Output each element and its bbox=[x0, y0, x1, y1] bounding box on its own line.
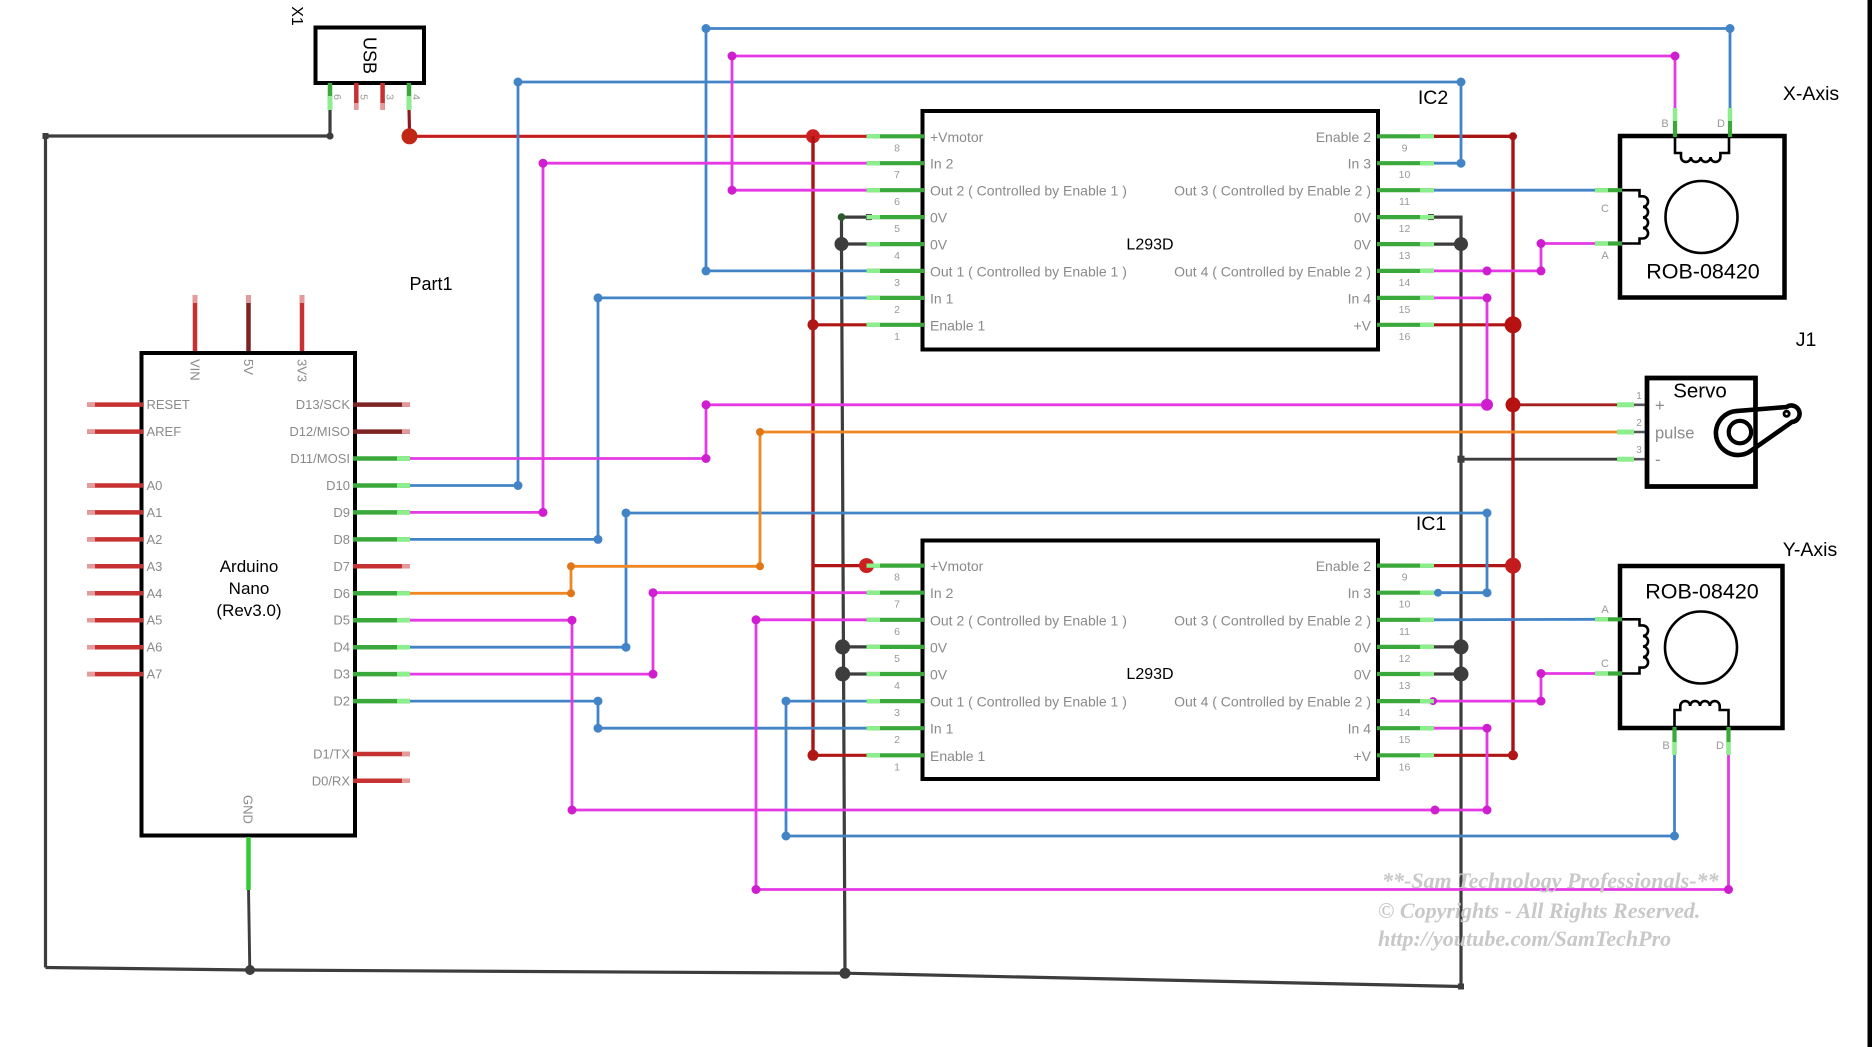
svg-text:A2: A2 bbox=[147, 532, 163, 547]
svg-text:A6: A6 bbox=[147, 640, 163, 655]
svg-text:8: 8 bbox=[894, 572, 900, 584]
stepper motor X left coil bbox=[1622, 190, 1648, 243]
pin 3 of servo J1 bbox=[1617, 458, 1648, 461]
pin 13 0V of IC1 bbox=[1377, 672, 1434, 676]
junction right 0V pin13 bbox=[1454, 237, 1468, 251]
wire red bus to IC1 Enable1 bbox=[813, 754, 869, 757]
svg-text:D13/SCK: D13/SCK bbox=[296, 397, 351, 412]
svg-text:C: C bbox=[1601, 203, 1609, 215]
pin 7 In 2 of IC2 bbox=[867, 161, 925, 165]
pin D4 of Arduino bbox=[353, 645, 410, 650]
svg-text:A1: A1 bbox=[147, 505, 163, 520]
pin 3 Out 1 ( Controlled by Enable 1 ) of IC1 bbox=[867, 699, 925, 703]
stepper motor Y rotor circle bbox=[1665, 612, 1737, 684]
wire IC2 0V pins 5-4 to gray bus bbox=[842, 217, 870, 244]
svg-text:D6: D6 bbox=[333, 586, 350, 601]
svg-text:X-Axis: X-Axis bbox=[1783, 83, 1840, 105]
svg-text:14: 14 bbox=[1399, 277, 1411, 289]
svg-text:D: D bbox=[1717, 118, 1725, 130]
IC IC2 L293D body bbox=[923, 111, 1379, 350]
svg-text:10: 10 bbox=[1399, 169, 1411, 181]
svg-text:Arduino: Arduino bbox=[220, 557, 279, 576]
pin A4 of Arduino bbox=[87, 591, 143, 596]
svg-text:Part1: Part1 bbox=[409, 274, 452, 294]
svg-text:2: 2 bbox=[1636, 418, 1642, 429]
pin 14 Out 4 ( Controlled by Enable 2 ) of IC2 bbox=[1377, 269, 1434, 273]
svg-text:(Rev3.0): (Rev3.0) bbox=[216, 601, 281, 620]
wire IC1 Out2 to Y motor D bbox=[756, 620, 1729, 890]
pin D11/MOSI of Arduino bbox=[353, 456, 410, 461]
pin GND of Arduino bbox=[246, 837, 251, 890]
svg-text:Out 4 ( Controlled by Enable 2: Out 4 ( Controlled by Enable 2 ) bbox=[1174, 263, 1371, 279]
svg-text:ROB-08420: ROB-08420 bbox=[1646, 260, 1760, 284]
svg-text:In 3: In 3 bbox=[1348, 585, 1372, 601]
junction right red bus Enable2 IC1 bbox=[1505, 558, 1521, 574]
svg-text:Enable 1: Enable 1 bbox=[930, 748, 985, 764]
svg-text:4: 4 bbox=[894, 680, 900, 692]
svg-text:2: 2 bbox=[894, 304, 900, 316]
pin D2 of Arduino bbox=[353, 699, 410, 704]
wire IC1 +V to right red bus bbox=[1431, 754, 1513, 757]
junction servo minus tap bbox=[1458, 456, 1465, 463]
svg-text:13: 13 bbox=[1399, 680, 1411, 692]
svg-text:+V: +V bbox=[1353, 317, 1371, 333]
junction GND rail mid bbox=[840, 968, 851, 979]
Arduino Nano body bbox=[142, 353, 356, 836]
svg-text:J1: J1 bbox=[1796, 329, 1817, 351]
wire IC2 +V to right red bus bbox=[1431, 323, 1513, 326]
junction IC1 right 0V pin13 bbox=[1454, 667, 1469, 682]
svg-text:2: 2 bbox=[894, 734, 900, 746]
pin 1 Enable 1 of IC1 bbox=[867, 753, 925, 757]
wire IC2 right 0V pins 12-13 bbox=[1431, 217, 1461, 244]
svg-text:7: 7 bbox=[894, 599, 900, 611]
pin 14 Out 4 ( Controlled by Enable 2 ) of IC1 bbox=[1377, 699, 1434, 703]
pin 8 +Vmotor of IC2 bbox=[867, 134, 925, 138]
pin 4 0V of IC2 bbox=[867, 242, 925, 246]
pin 9 Enable 2 of IC1 bbox=[1377, 563, 1434, 567]
svg-text:D2: D2 bbox=[333, 694, 350, 709]
pin 11 Out 3 ( Controlled by Enable 2 ) of IC1 bbox=[1377, 618, 1434, 622]
pin 12 0V of IC1 bbox=[1377, 645, 1434, 649]
pin A of Y motor bbox=[1595, 617, 1622, 621]
svg-text:13: 13 bbox=[1399, 250, 1411, 262]
wire IC1 Out1 to Y motor B bbox=[786, 701, 1675, 836]
pin 1 of servo J1 bbox=[1617, 403, 1648, 406]
stepper motor Y ROB-08420 body bbox=[1620, 566, 1783, 728]
svg-text:11: 11 bbox=[1399, 626, 1410, 638]
wire red bus to IC2 Enable1 bbox=[813, 323, 869, 326]
servo horn icon bbox=[1716, 406, 1800, 456]
svg-text:IC1: IC1 bbox=[1416, 513, 1446, 535]
svg-text:Out 2 ( Controlled by Enable 1: Out 2 ( Controlled by Enable 1 ) bbox=[930, 183, 1127, 199]
svg-text:10: 10 bbox=[1399, 599, 1411, 611]
svg-text:In 4: In 4 bbox=[1348, 290, 1372, 306]
pin A5 of Arduino bbox=[87, 618, 143, 623]
svg-text:In 2: In 2 bbox=[930, 585, 954, 601]
pin 3V3 of Arduino bbox=[300, 295, 305, 351]
svg-text:0V: 0V bbox=[930, 237, 948, 253]
svg-text:A0: A0 bbox=[147, 478, 163, 493]
junction 12V at red bus bbox=[806, 129, 820, 143]
pin VIN of Arduino bbox=[193, 295, 198, 351]
svg-text:In 3: In 3 bbox=[1348, 156, 1372, 172]
svg-text:VIN: VIN bbox=[188, 359, 203, 381]
stepper motor Y bottom coil bbox=[1675, 701, 1729, 726]
wire IC1 0V pins 5-4 taps bbox=[843, 645, 869, 648]
svg-text:5: 5 bbox=[357, 94, 369, 100]
svg-text:15: 15 bbox=[1399, 734, 1411, 746]
wire IC2 Enable2 to right red bus bbox=[1431, 136, 1513, 755]
svg-text:1: 1 bbox=[894, 761, 900, 773]
junction IC1 Vmotor stub bbox=[859, 558, 874, 573]
junction USB pin4 12V bbox=[402, 128, 418, 144]
wire IC1 Out3 to Y motor A bbox=[1431, 618, 1597, 621]
pin D10 of Arduino bbox=[353, 483, 410, 488]
svg-text:Out 3 ( Controlled by Enable 2: Out 3 ( Controlled by Enable 2 ) bbox=[1174, 612, 1371, 628]
svg-text:Servo: Servo bbox=[1673, 380, 1727, 403]
pin 4 0V of IC1 bbox=[867, 672, 925, 676]
wire red bus to IC1 Vmotor bbox=[813, 564, 867, 567]
wire Arduino GND down bbox=[249, 888, 250, 970]
junction 0V bus pin5 corner bbox=[838, 213, 846, 221]
wire D5 to IC1 In4 bbox=[408, 620, 1487, 810]
svg-text:5: 5 bbox=[894, 653, 900, 665]
pin 6 of X1 bbox=[328, 83, 333, 110]
wire USB pin4 to 12V rail bbox=[407, 108, 411, 131]
svg-text:+Vmotor: +Vmotor bbox=[930, 558, 984, 574]
svg-text:D9: D9 bbox=[333, 505, 350, 520]
svg-text:Out 4 ( Controlled by Enable 2: Out 4 ( Controlled by Enable 2 ) bbox=[1174, 694, 1371, 710]
svg-text:0V: 0V bbox=[1354, 210, 1372, 226]
pin A2 of Arduino bbox=[87, 537, 143, 542]
svg-text:0V: 0V bbox=[1354, 237, 1372, 253]
svg-text:0V: 0V bbox=[1354, 667, 1372, 683]
svg-text:A3: A3 bbox=[147, 559, 163, 574]
wire D2 to IC1 In1 bbox=[408, 701, 869, 728]
svg-text:RESET: RESET bbox=[147, 397, 190, 412]
pin A0 of Arduino bbox=[87, 483, 143, 488]
junction IC1 0V pin5 bbox=[835, 639, 850, 654]
svg-text:© Copyrights - All Rights Rese: © Copyrights - All Rights Reserved. bbox=[1378, 898, 1700, 923]
svg-text:In 2: In 2 bbox=[930, 156, 954, 172]
svg-text:0V: 0V bbox=[930, 210, 948, 226]
wire USB GND net bbox=[46, 110, 331, 968]
junction red bus Enable1 bbox=[808, 319, 819, 330]
pin 10 In 3 of IC1 bbox=[1377, 591, 1434, 595]
wire D10 to IC2 In3 bbox=[408, 82, 1461, 486]
svg-text:+Vmotor: +Vmotor bbox=[930, 129, 984, 145]
junction GND rail Arduino bbox=[245, 965, 255, 975]
wire D6 to servo pulse bbox=[408, 432, 1618, 593]
svg-text:Enable 2: Enable 2 bbox=[1316, 558, 1371, 574]
svg-text:D3: D3 bbox=[333, 667, 350, 682]
wire D8 to IC2 In1 bbox=[408, 298, 869, 540]
pin 11 Out 3 ( Controlled by Enable 2 ) of IC2 bbox=[1377, 188, 1434, 192]
svg-text:B: B bbox=[1662, 740, 1669, 752]
wire IC2 Out2 to X motor B bbox=[732, 56, 1675, 190]
pin 15 In 4 of IC1 bbox=[1377, 726, 1434, 730]
wire IC2 Out1 to X motor D bbox=[706, 29, 1730, 271]
svg-text:15: 15 bbox=[1399, 304, 1411, 316]
svg-text:D10: D10 bbox=[326, 478, 350, 493]
pin D9 of Arduino bbox=[353, 510, 410, 515]
junction IC1 0V pin4 bbox=[835, 667, 850, 682]
svg-text:0V: 0V bbox=[930, 667, 948, 683]
pin 4 of X1 bbox=[407, 83, 412, 110]
pin D1/TX of Arduino bbox=[353, 752, 410, 757]
svg-text:Out 3 ( Controlled by Enable 2: Out 3 ( Controlled by Enable 2 ) bbox=[1174, 183, 1371, 199]
svg-text:A7: A7 bbox=[147, 667, 163, 682]
svg-text:http://youtube.com/SamTechPro: http://youtube.com/SamTechPro bbox=[1378, 926, 1671, 951]
pin 13 0V of IC2 bbox=[1377, 242, 1434, 246]
pin 2 of servo J1 bbox=[1617, 431, 1648, 434]
pin 10 In 3 of IC2 bbox=[1377, 161, 1434, 165]
pin 5 0V of IC2 bbox=[867, 215, 925, 219]
svg-text:C: C bbox=[1601, 658, 1609, 670]
wire D9 to IC2 In2 bbox=[408, 163, 869, 512]
pin D3 of Arduino bbox=[353, 672, 410, 677]
svg-text:**-Sam Technology Professional: **-Sam Technology Professionals-** bbox=[1382, 868, 1720, 893]
pin D6 of Arduino bbox=[353, 591, 410, 596]
svg-text:pulse: pulse bbox=[1655, 425, 1694, 443]
svg-text:A: A bbox=[1601, 604, 1609, 616]
svg-text:+V: +V bbox=[1353, 748, 1371, 764]
pin 2 In 1 of IC1 bbox=[867, 726, 925, 730]
junction red bus Enable1 IC1 bbox=[808, 750, 819, 761]
svg-text:Enable 2: Enable 2 bbox=[1316, 129, 1371, 145]
svg-text:Enable 1: Enable 1 bbox=[930, 317, 985, 333]
svg-text:GND: GND bbox=[241, 795, 256, 824]
stepper motor Y left coil bbox=[1622, 619, 1648, 673]
wire ground rail bbox=[46, 968, 1462, 987]
pin A6 of Arduino bbox=[87, 645, 143, 650]
servo box border overlay bbox=[1647, 378, 1756, 487]
svg-text:D11/MOSI: D11/MOSI bbox=[290, 451, 350, 466]
svg-text:1: 1 bbox=[894, 331, 900, 343]
wire gray 0V bus vertical bbox=[842, 244, 846, 973]
svg-text:A5: A5 bbox=[147, 613, 163, 628]
wire D11 MOSI to IC2 In4 bbox=[408, 298, 1487, 459]
stepper motor X ROB-08420 body bbox=[1620, 136, 1785, 298]
wire IC1 Enable2 to right red bus bbox=[1431, 564, 1513, 567]
pin 6 Out 2 ( Controlled by Enable 1 ) of IC1 bbox=[867, 618, 925, 622]
pin 3 Out 1 ( Controlled by Enable 1 ) of IC2 bbox=[867, 269, 925, 273]
svg-text:Out 2 ( Controlled by Enable 1: Out 2 ( Controlled by Enable 1 ) bbox=[930, 612, 1127, 628]
wire D3 to IC1 In2 bbox=[408, 593, 869, 674]
junction IC1 right 0V pin12 bbox=[1454, 639, 1469, 654]
junction 0V bus pin4 bbox=[835, 237, 849, 251]
junction GND rail right end bbox=[1458, 984, 1464, 990]
stepper motor X rotor circle bbox=[1666, 181, 1738, 253]
svg-text:3V3: 3V3 bbox=[295, 359, 310, 382]
svg-text:5V: 5V bbox=[241, 359, 256, 375]
svg-text:6: 6 bbox=[894, 196, 900, 208]
svg-text:0V: 0V bbox=[930, 639, 948, 655]
connector X1 USB body bbox=[316, 28, 425, 84]
wire red bus to servo + bbox=[1513, 403, 1618, 406]
svg-text:D0/RX: D0/RX bbox=[312, 773, 351, 788]
pin 5 of X1 bbox=[354, 83, 359, 110]
IC IC1 L293D body bbox=[923, 541, 1379, 780]
svg-text:X1: X1 bbox=[288, 6, 305, 26]
svg-text:16: 16 bbox=[1399, 761, 1411, 773]
pin 5V of Arduino bbox=[246, 295, 251, 351]
junction ground rail left bbox=[43, 133, 49, 139]
pin A of X motor bbox=[1595, 241, 1622, 245]
svg-text:L293D: L293D bbox=[1126, 237, 1173, 254]
pin 15 In 4 of IC2 bbox=[1377, 296, 1434, 300]
wire IC2 Out4 to X motor A bbox=[1431, 244, 1597, 271]
svg-text:A4: A4 bbox=[147, 586, 163, 601]
pin D7 of Arduino bbox=[353, 564, 410, 569]
pin 12 0V of IC2 bbox=[1377, 215, 1434, 219]
junction USB pin6 corner bbox=[326, 132, 333, 139]
pin C of Y motor bbox=[1595, 671, 1622, 675]
wire servo minus to 0V bus bbox=[1461, 458, 1618, 461]
pin A1 of Arduino bbox=[87, 510, 143, 515]
pin A3 of Arduino bbox=[87, 564, 143, 569]
svg-text:L293D: L293D bbox=[1126, 666, 1173, 683]
wire 12V horizontal to IC2 Vmotor bbox=[410, 135, 870, 138]
svg-text:8: 8 bbox=[894, 142, 900, 154]
svg-text:-: - bbox=[1655, 451, 1661, 469]
svg-text:B: B bbox=[1661, 118, 1668, 130]
svg-text:7: 7 bbox=[894, 169, 900, 181]
junction red bus servo bbox=[1506, 397, 1521, 412]
svg-text:9: 9 bbox=[1402, 142, 1408, 154]
svg-text:In 1: In 1 bbox=[930, 290, 954, 306]
svg-text:6: 6 bbox=[331, 94, 343, 100]
pin D of X motor bbox=[1728, 108, 1732, 137]
pin 7 In 2 of IC1 bbox=[867, 591, 925, 595]
svg-text:0V: 0V bbox=[1354, 639, 1372, 655]
svg-text:+: + bbox=[1655, 397, 1665, 415]
pin 3 of X1 bbox=[380, 83, 385, 110]
pin 5 0V of IC1 bbox=[867, 645, 925, 649]
wire gray 0V right vertical bbox=[1459, 244, 1462, 986]
wire IC2 Out3 to X motor C bbox=[1431, 189, 1597, 192]
svg-text:USB: USB bbox=[360, 37, 380, 74]
svg-text:3: 3 bbox=[1636, 445, 1642, 456]
svg-text:Out 1 ( Controlled by Enable 1: Out 1 ( Controlled by Enable 1 ) bbox=[930, 694, 1127, 710]
pin B of Y motor bbox=[1672, 727, 1676, 755]
svg-text:D5: D5 bbox=[333, 613, 350, 628]
svg-text:Nano: Nano bbox=[229, 579, 270, 598]
pin 8 +Vmotor of IC1 bbox=[867, 563, 925, 567]
svg-text:12: 12 bbox=[1399, 223, 1411, 235]
wire IC1 Out4 to Y motor C bbox=[1431, 674, 1597, 702]
svg-text:12: 12 bbox=[1399, 653, 1411, 665]
svg-text:4: 4 bbox=[410, 94, 422, 100]
pin D of Y motor bbox=[1726, 727, 1730, 755]
pin 1 Enable 1 of IC2 bbox=[867, 323, 925, 327]
frame border bbox=[1868, 0, 1872, 1047]
pin D5 of Arduino bbox=[353, 618, 410, 623]
pin D8 of Arduino bbox=[353, 537, 410, 542]
wire IC1 right 0V pins 12-13 taps bbox=[1431, 645, 1461, 648]
svg-text:AREF: AREF bbox=[147, 424, 182, 439]
junction right red bus +V bbox=[1505, 316, 1522, 333]
svg-text:IC2: IC2 bbox=[1418, 87, 1448, 109]
pin 16 +V of IC2 bbox=[1377, 323, 1434, 327]
svg-text:A: A bbox=[1601, 250, 1609, 262]
svg-text:In 4: In 4 bbox=[1348, 721, 1372, 737]
pin AREF of Arduino bbox=[87, 429, 143, 434]
pin 9 Enable 2 of IC2 bbox=[1377, 134, 1434, 138]
pin D12/MISO of Arduino bbox=[353, 429, 410, 434]
pin D13/SCK of Arduino bbox=[353, 402, 410, 407]
svg-text:D4: D4 bbox=[333, 640, 350, 655]
pin B of X motor bbox=[1673, 108, 1677, 137]
junction right red bus bottom bbox=[1508, 750, 1518, 760]
svg-text:ROB-08420: ROB-08420 bbox=[1645, 580, 1759, 604]
svg-text:9: 9 bbox=[1402, 572, 1408, 584]
pin RESET of Arduino bbox=[87, 402, 143, 407]
svg-text:D7: D7 bbox=[333, 559, 350, 574]
svg-text:D: D bbox=[1716, 740, 1724, 752]
svg-text:In 1: In 1 bbox=[930, 721, 954, 737]
svg-text:D8: D8 bbox=[333, 532, 350, 547]
servo J1 body bbox=[1647, 378, 1756, 487]
pin 2 In 1 of IC2 bbox=[867, 296, 925, 300]
svg-text:Out 1 ( Controlled by Enable 1: Out 1 ( Controlled by Enable 1 ) bbox=[930, 263, 1127, 279]
svg-text:1: 1 bbox=[1636, 391, 1642, 402]
pin A7 of Arduino bbox=[87, 672, 143, 677]
svg-text:6: 6 bbox=[894, 626, 900, 638]
svg-text:D12/MISO: D12/MISO bbox=[289, 424, 350, 439]
svg-text:5: 5 bbox=[894, 223, 900, 235]
svg-text:11: 11 bbox=[1399, 196, 1410, 208]
svg-text:3: 3 bbox=[894, 707, 900, 719]
pin 6 Out 2 ( Controlled by Enable 1 ) of IC2 bbox=[867, 188, 925, 192]
pin C of X motor bbox=[1595, 188, 1622, 192]
wire red bus vertical left bbox=[811, 136, 814, 755]
pin D0/RX of Arduino bbox=[353, 779, 410, 784]
svg-text:D1/TX: D1/TX bbox=[313, 747, 350, 762]
stepper motor X top coil bbox=[1675, 137, 1729, 162]
svg-text:3: 3 bbox=[894, 277, 900, 289]
wire D4 to IC1 In3 bbox=[408, 513, 1487, 647]
svg-text:3: 3 bbox=[384, 94, 396, 100]
svg-text:Y-Axis: Y-Axis bbox=[1783, 539, 1838, 561]
svg-text:16: 16 bbox=[1399, 331, 1411, 343]
svg-text:4: 4 bbox=[894, 250, 900, 262]
pin 16 +V of IC1 bbox=[1377, 753, 1434, 757]
svg-text:14: 14 bbox=[1399, 707, 1411, 719]
